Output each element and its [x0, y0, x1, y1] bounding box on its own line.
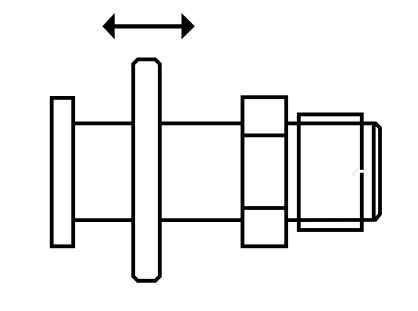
wire faint highlight slash: [353, 168, 359, 176]
node connector cap outline with chamfered right corners: [286, 123, 380, 220]
node left arrowhead: [102, 13, 114, 39]
wire body tube bottom segment A: [73, 218, 133, 222]
wire hex nut facet line upper: [243, 133, 287, 137]
node clamp disc with chamfered corners: [133, 59, 160, 280]
node threaded barrel rectangle: [299, 114, 362, 230]
node hex nut outline: [243, 97, 287, 246]
wire body tube bottom segment B: [160, 218, 243, 222]
node left flange rectangle: [52, 98, 73, 246]
wire hex nut facet line lower: [243, 206, 287, 210]
wire gap break on barrel right edge: [358, 170, 367, 173]
wire body tube top segment B: [160, 122, 243, 126]
wire connector cap inner edge line: [372, 123, 376, 220]
node right arrowhead: [182, 13, 195, 39]
wire body tube top segment A: [73, 122, 133, 126]
wire double-headed arrow shaft: [112, 24, 184, 28]
